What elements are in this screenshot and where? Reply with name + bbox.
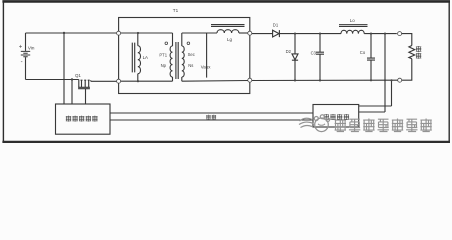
inductor LA winding: [138, 46, 141, 74]
transistor Q1 body: [78, 80, 90, 89]
voltage sampling box: [313, 105, 359, 128]
svg-text:C3: C3: [311, 51, 317, 56]
svg-text:Ns: Ns: [188, 63, 193, 68]
label main control circuit (CJK blobs): [66, 116, 98, 122]
wire output top rail to D1: [252, 33, 273, 35]
inductor Lg winding: [217, 30, 239, 33]
inductor Lo winding: [341, 30, 364, 33]
capacitor C3 plates: [316, 52, 324, 54]
polarity dot PT1 secondary: [187, 42, 190, 45]
transformer T1 module box: [119, 18, 250, 94]
wire secondary top to Lg: [182, 32, 217, 34]
wire bottom rail inside T1 box right: [182, 80, 248, 83]
watermark text (CJK blobs): [335, 119, 432, 132]
capacitor C3 bottom wire: [319, 54, 321, 80]
wire bottom-left rail: [26, 79, 79, 81]
battery V1 negative lead: [25, 57, 27, 79]
connector circles: [117, 31, 402, 83]
svg-text:Vaux: Vaux: [201, 65, 211, 70]
inductor Lg core bars: [211, 25, 245, 27]
node Vaux measurement line: [206, 33, 208, 78]
wire top rail from battery to T1: [26, 32, 117, 34]
node connector T1 box left top: [117, 31, 121, 35]
wire output return sense from bottom rail down to sampling box: [359, 80, 392, 106]
transformer PT1 core: [176, 42, 178, 79]
inductor LA core bars: [132, 43, 134, 73]
main control circuit box: [56, 104, 111, 134]
svg-text:PT1: PT1: [159, 53, 167, 58]
diode D1: [273, 30, 280, 37]
transformer PT1 primary winding: [170, 46, 172, 77]
wire Lo to load node: [364, 33, 397, 35]
node junction C3 top: [319, 33, 321, 35]
battery V1 positive lead: [25, 33, 27, 51]
node connector T1 box right top: [248, 31, 252, 35]
node connector load top: [398, 32, 402, 36]
node junction sense bottom: [384, 79, 386, 81]
capacitor C3 top wire: [319, 34, 321, 52]
transformer PT1 secondary winding: [182, 46, 184, 77]
capacitor Co top wire: [370, 34, 372, 58]
svg-text:+: +: [19, 44, 23, 50]
diode D2: [292, 54, 298, 60]
node junction sense top: [384, 33, 386, 35]
svg-text:-: -: [21, 59, 23, 65]
node junction bottom rail / control box: [71, 78, 73, 80]
transformer PT1 primary bottom lead: [172, 77, 174, 81]
node connector T1 box left bottom: [117, 79, 121, 83]
node connector load bottom: [398, 78, 402, 82]
svg-text:Lo: Lo: [350, 18, 355, 23]
diode D2 branch bottom wire: [294, 60, 296, 80]
capacitor Co plates: [367, 58, 375, 60]
wire load bottom: [402, 59, 412, 80]
capacitor Co bottom wire: [370, 60, 372, 80]
junction dots: [63, 32, 393, 82]
svg-text:Vin: Vin: [28, 46, 35, 51]
inductor LA top lead: [137, 33, 139, 46]
wire feedback upper: [110, 112, 313, 114]
wire top rail inside T1 box: [121, 32, 173, 34]
label feedback (CJK blobs): [206, 115, 216, 120]
node junction top rail / control box: [63, 32, 65, 34]
resistor load zigzag: [409, 46, 415, 59]
node junction LA top: [137, 32, 139, 34]
svg-text:T1: T1: [173, 8, 179, 13]
transformer PT1 secondary top lead: [181, 33, 183, 46]
labels (latin): [19, 8, 366, 78]
inductor Lo core bars: [339, 25, 368, 27]
svg-text:Co: Co: [360, 50, 366, 55]
svg-text:D2: D2: [286, 49, 292, 54]
wire Lg to box edge: [239, 32, 248, 34]
wire from bottom rail node down to control box: [71, 80, 73, 105]
diode D2 branch top wire: [294, 34, 296, 54]
wire node to load top: [402, 34, 412, 46]
wire feedback lower: [110, 119, 313, 121]
watermark logo: [299, 115, 330, 132]
wire output sense tap from top rail down to sampling box: [359, 34, 385, 112]
node junction D2 top: [294, 33, 296, 35]
transformer PT1 primary top lead: [172, 33, 174, 46]
wire output bottom rail: [252, 79, 398, 81]
transistor Q1 drain wire to transformer primary: [91, 80, 117, 81]
node connector T1 box right bottom: [248, 78, 252, 82]
polarity dot PT1 primary: [165, 42, 168, 45]
svg-text:Np: Np: [161, 63, 167, 68]
svg-text:LA: LA: [143, 55, 148, 60]
inductor LA bottom lead: [137, 74, 139, 82]
node junction return sense: [390, 79, 392, 81]
svg-text:Lg: Lg: [227, 37, 232, 42]
transformer PT1 secondary bottom lead: [181, 77, 183, 81]
svg-text:Sec: Sec: [188, 52, 195, 57]
svg-text:Q1: Q1: [75, 73, 81, 78]
label load (CJK blobs, stacked): [416, 46, 421, 59]
node junction C3 bottom: [319, 79, 321, 81]
node junction Co bottom: [370, 79, 372, 81]
label voltage sampling (CJK blobs): [324, 114, 350, 120]
svg-text:D1: D1: [273, 22, 279, 27]
battery V1 plates: [21, 51, 30, 56]
wire bottom rail inside T1 box left: [121, 80, 173, 82]
node junction D2 bottom: [294, 79, 296, 81]
node junction LA bottom: [137, 80, 139, 82]
wire D1 to Lo: [279, 33, 341, 35]
transistor Q1 gate wire down to control box: [85, 89, 87, 104]
node junction Co top: [370, 33, 372, 35]
wire from node at top rail down to control box: [63, 33, 65, 104]
